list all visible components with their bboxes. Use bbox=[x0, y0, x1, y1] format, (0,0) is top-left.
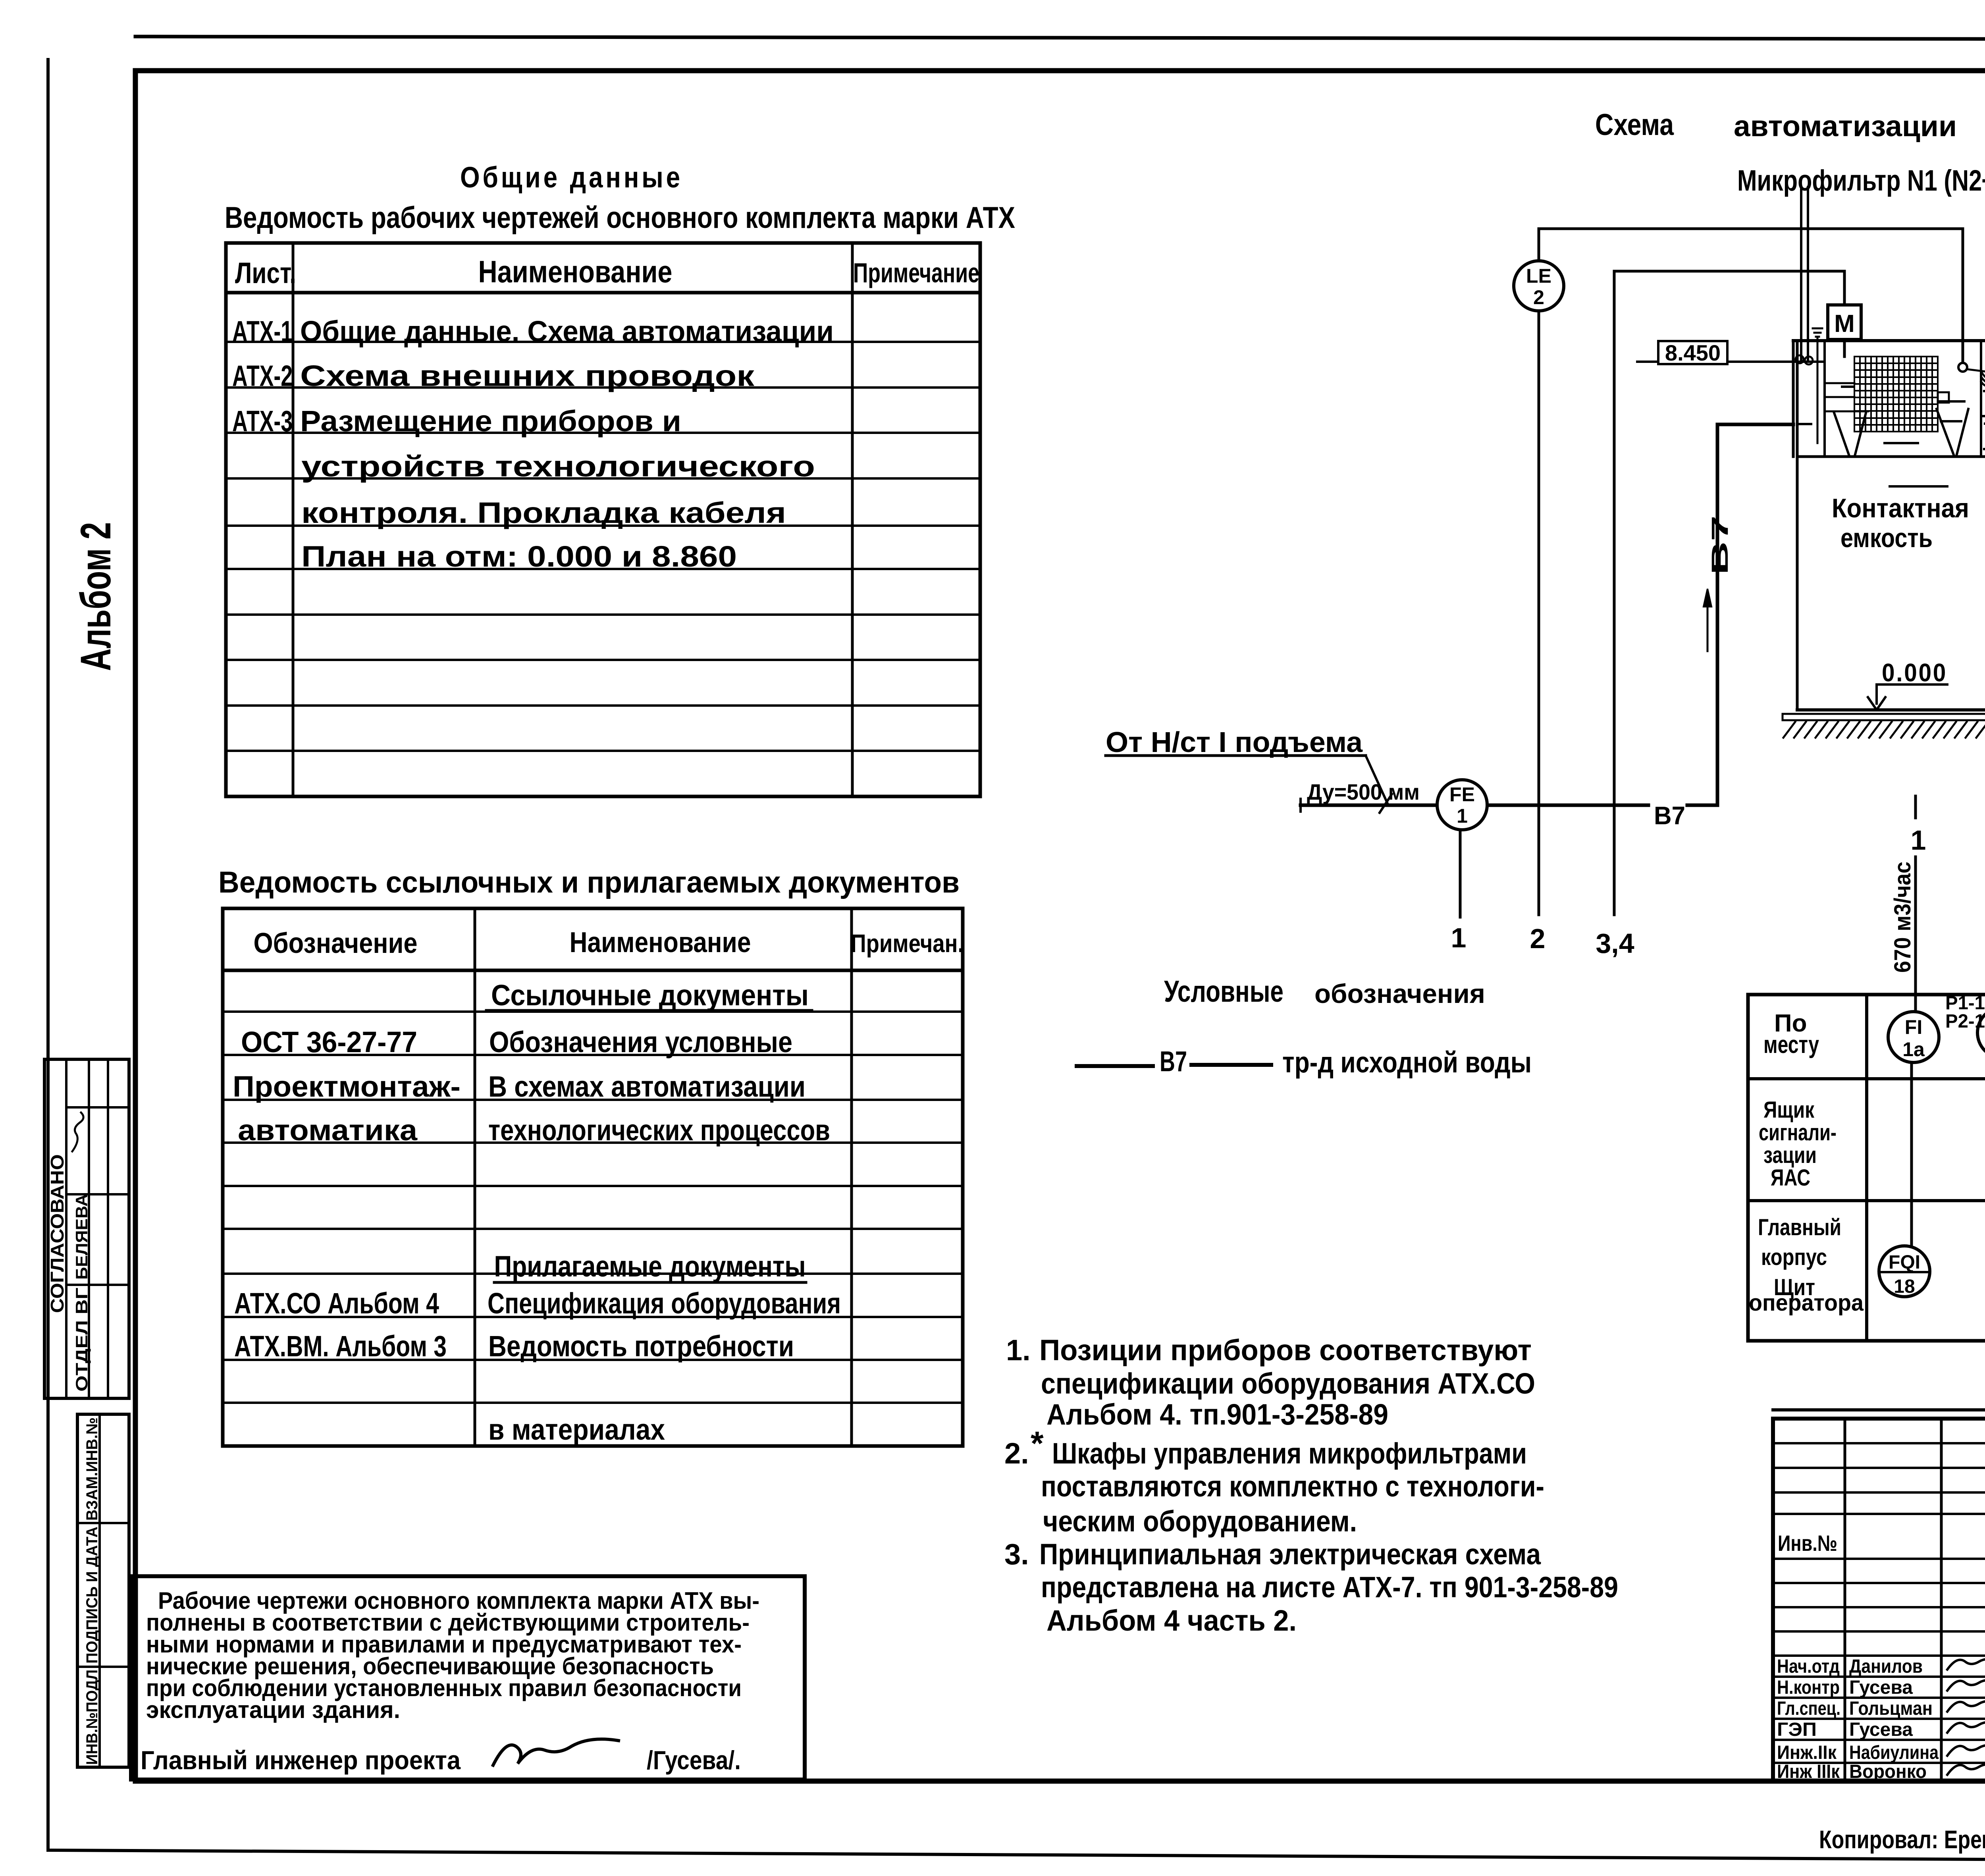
svg-text:FE: FE bbox=[1449, 783, 1475, 806]
svg-text:ВЗАМ.ИНВ.№: ВЗАМ.ИНВ.№ bbox=[83, 1417, 101, 1521]
svg-text:Главный инженер проекта: Главный инженер проекта bbox=[141, 1745, 461, 1775]
flow element FE1 circle bbox=[1437, 780, 1487, 830]
signal line FI to FQI bbox=[1910, 1062, 1913, 1246]
ground hatching bbox=[1783, 722, 1985, 738]
approval stamp block (Согласовано) bbox=[44, 1059, 129, 1398]
svg-text:Шкафы управления микрофильтрам: Шкафы управления микрофильтрами bbox=[1052, 1437, 1527, 1470]
svg-text:автоматизации: автоматизации bbox=[1734, 110, 1957, 143]
svg-text:Альбом 4 часть 2.: Альбом 4 часть 2. bbox=[1046, 1604, 1297, 1637]
svg-text:Главный: Главный bbox=[1758, 1215, 1841, 1240]
svg-text:поставляются комплектно с техн: поставляются комплектно с технологи- bbox=[1041, 1470, 1544, 1503]
svg-text:3.: 3. bbox=[1004, 1538, 1029, 1571]
svg-text:оператора: оператора bbox=[1749, 1290, 1864, 1316]
level gauge symbol bbox=[1813, 328, 1822, 330]
svg-text:ОСТ 36-27-77: ОСТ 36-27-77 bbox=[241, 1026, 417, 1059]
svg-text:Прилагаемые документы: Прилагаемые документы bbox=[494, 1250, 806, 1283]
svg-text:зации: зации bbox=[1763, 1142, 1817, 1168]
FE1 signal stem bbox=[1459, 830, 1462, 917]
svg-text:Примечан.: Примечан. bbox=[851, 929, 964, 958]
svg-text:3,4: 3,4 bbox=[1596, 928, 1634, 959]
signal line 1 stub bbox=[1914, 796, 1917, 818]
svg-text:Общие данные. Схема автоматиза: Общие данные. Схема автоматизации bbox=[300, 315, 834, 348]
svg-text:Позиции приборов соответствуют: Позиции приборов соответствуют bbox=[1039, 1334, 1532, 1367]
svg-text:Обозначения условные: Обозначения условные bbox=[489, 1026, 792, 1059]
right level probe circle bbox=[1958, 363, 1967, 372]
inlet trough shelves bbox=[1825, 382, 1854, 384]
svg-text:В схемах автоматизации: В схемах автоматизации bbox=[488, 1070, 806, 1103]
svg-text:Условные: Условные bbox=[1164, 975, 1284, 1008]
svg-text:/Гусева/.: /Гусева/. bbox=[647, 1745, 741, 1775]
svg-text:Размещение приборов и: Размещение приборов и bbox=[300, 405, 681, 438]
svg-text:1.: 1. bbox=[1006, 1334, 1031, 1367]
title block small rows bbox=[1773, 1442, 1985, 1444]
svg-text:Гусева: Гусева bbox=[1849, 1677, 1913, 1698]
left level probe circles bbox=[1796, 355, 1804, 363]
svg-text:корпус: корпус bbox=[1761, 1244, 1827, 1270]
svg-text:обозначения: обозначения bbox=[1314, 979, 1485, 1009]
svg-text:АТХ.СО Альбом 4: АТХ.СО Альбом 4 bbox=[234, 1287, 439, 1320]
svg-text:2: 2 bbox=[1533, 286, 1544, 308]
flow indicator FI 1a circle bbox=[1888, 1012, 1939, 1062]
svg-text:Копировал: Еремченко: Копировал: Еремченко bbox=[1819, 1825, 1985, 1854]
water level dashes in filter chamber bbox=[1799, 387, 1964, 486]
svg-text:1а: 1а bbox=[1902, 1038, 1925, 1060]
svg-text:месту: месту bbox=[1763, 1031, 1819, 1059]
level switch LCS 2 circle bbox=[1977, 1007, 1985, 1058]
svg-text:Ведомость потребности: Ведомость потребности bbox=[488, 1330, 794, 1363]
svg-text:Альбом 4. тп.901-3-258-89: Альбом 4. тп.901-3-258-89 bbox=[1046, 1398, 1388, 1431]
riser flow arrow up bbox=[1707, 592, 1709, 651]
svg-text:ЯАС: ЯАС bbox=[1771, 1165, 1810, 1191]
sheet outer trim line left bbox=[46, 60, 50, 1850]
svg-text:Нач.отд: Нач.отд bbox=[1777, 1656, 1840, 1677]
overflow weir arcs bbox=[1981, 371, 1985, 387]
overflow chamber water dashes bbox=[1983, 391, 1985, 449]
svg-text:Обозначение: Обозначение bbox=[254, 927, 418, 959]
svg-text:2: 2 bbox=[1530, 923, 1546, 954]
svg-text:Наименование: Наименование bbox=[478, 254, 673, 289]
water pipe B7 from pump station bbox=[1301, 804, 1437, 807]
svg-text:тр-д исходной воды: тр-д исходной воды bbox=[1282, 1046, 1532, 1079]
personnel rows bbox=[1773, 1654, 1985, 1657]
drum support struts bbox=[1834, 413, 1849, 456]
svg-text:670 м3/час: 670 м3/час bbox=[1890, 862, 1916, 973]
svg-text:БЕЛЯЕВА: БЕЛЯЕВА bbox=[72, 1194, 91, 1280]
svg-text:Наименование: Наименование bbox=[570, 927, 751, 958]
svg-text:сигнали-: сигнали- bbox=[1759, 1120, 1837, 1145]
filter tank inner divider right bbox=[1980, 342, 1982, 457]
motor control wire bbox=[1614, 271, 1844, 915]
svg-text:М: М bbox=[1834, 310, 1855, 337]
svg-text:LE: LE bbox=[1526, 265, 1551, 287]
filter tank top edge bbox=[1793, 339, 1985, 342]
motor shaft stub bbox=[1843, 339, 1846, 357]
svg-text:ИНВ.№ПОДЛ: ИНВ.№ПОДЛ bbox=[83, 1670, 101, 1765]
svg-text:Принципиальная электрическая с: Принципиальная электрическая схема bbox=[1039, 1538, 1541, 1571]
svg-text:*: * bbox=[1031, 1425, 1044, 1462]
filter tank left wall (double) bbox=[1792, 341, 1795, 457]
svg-text:ческим оборудованием.: ческим оборудованием. bbox=[1043, 1505, 1357, 1538]
svg-text:АТХ-1: АТХ-1 bbox=[232, 315, 293, 348]
pipe break slash bbox=[1380, 794, 1392, 813]
svg-text:Ведомость ссылочных и прилагае: Ведомость ссылочных и прилагаемых докуме… bbox=[218, 866, 960, 899]
level element LE2 circle bbox=[1514, 261, 1564, 311]
riser pipe B7 to tank bbox=[1717, 424, 1793, 805]
mesh side sensor box bbox=[1938, 392, 1949, 403]
svg-text:Инж IIIк: Инж IIIк bbox=[1777, 1761, 1840, 1782]
svg-text:Контактная: Контактная bbox=[1832, 493, 1969, 523]
title block left columns bbox=[1844, 1419, 1846, 1781]
inventory stamp block (Взам/Подпись/Инв) bbox=[77, 1414, 129, 1767]
svg-text:Альбом 2: Альбом 2 bbox=[71, 522, 119, 671]
svg-text:Схема внешних проводок: Схема внешних проводок bbox=[300, 359, 755, 392]
svg-text:Лист.: Лист. bbox=[235, 256, 296, 289]
svg-text:18: 18 bbox=[1894, 1276, 1915, 1297]
svg-text:Микрофильтр N1 (N2÷N4).: Микрофильтр N1 (N2÷N4). bbox=[1737, 164, 1985, 197]
svg-text:устройств технологического: устройств технологического bbox=[301, 450, 815, 483]
svg-text:Набиулина: Набиулина bbox=[1849, 1742, 1939, 1763]
chief engineer signature bbox=[493, 1739, 619, 1765]
svg-text:0.000: 0.000 bbox=[1882, 658, 1947, 687]
microfilter mesh drum bbox=[1854, 357, 1938, 432]
wire from LE2 to right level probe bbox=[1539, 229, 1963, 361]
svg-text:Ящик: Ящик bbox=[1763, 1097, 1815, 1123]
svg-text:В7: В7 bbox=[1160, 1046, 1187, 1078]
svg-text:Данилов: Данилов bbox=[1849, 1656, 1923, 1677]
svg-text:Инж.IIк: Инж.IIк bbox=[1777, 1742, 1837, 1763]
svg-text:Гл.спец.: Гл.спец. bbox=[1777, 1698, 1840, 1719]
svg-text:Ведомость рабочих чертежей осн: Ведомость рабочих чертежей основного ком… bbox=[225, 201, 1015, 235]
svg-text:ПОДПИСЬ И ДАТА: ПОДПИСЬ И ДАТА bbox=[83, 1527, 101, 1664]
svg-text:Ду=500 мм: Ду=500 мм bbox=[1307, 779, 1420, 804]
elevation box 8.450 bbox=[1658, 341, 1727, 364]
level line at 8.450 bbox=[1637, 361, 1658, 363]
table 2: referenced documents bbox=[223, 908, 963, 1446]
svg-text:FQI: FQI bbox=[1889, 1252, 1920, 1273]
svg-text:Ссылочные документы: Ссылочные документы bbox=[491, 979, 809, 1012]
title block top rule bbox=[1773, 1408, 1985, 1411]
svg-text:2.: 2. bbox=[1004, 1437, 1029, 1470]
flow totalizer FQI 18 circle bbox=[1879, 1246, 1930, 1297]
svg-text:Схема: Схема bbox=[1595, 108, 1674, 142]
svg-text:1: 1 bbox=[1457, 805, 1468, 827]
svg-text:1: 1 bbox=[1911, 825, 1926, 856]
statement box bbox=[131, 1576, 805, 1780]
svg-text:спецификации оборудования АТХ.: спецификации оборудования АТХ.СО bbox=[1041, 1367, 1535, 1400]
motor M box bbox=[1828, 305, 1861, 339]
svg-text:в материалах: в материалах bbox=[488, 1413, 665, 1446]
svg-text:АТХ.ВМ. Альбом 3: АТХ.ВМ. Альбом 3 bbox=[234, 1330, 447, 1363]
svg-text:ГЭП: ГЭП bbox=[1777, 1719, 1817, 1740]
sheet outer trim line top bbox=[135, 37, 1985, 40]
filter tank inner divider left bbox=[1823, 342, 1826, 457]
svg-text:Общие данные: Общие данные bbox=[460, 161, 683, 194]
svg-text:В7: В7 bbox=[1707, 515, 1733, 575]
svg-text:FI: FI bbox=[1905, 1016, 1922, 1038]
svg-text:представлена на листе АТХ-7. т: представлена на листе АТХ-7. тп 901-3-25… bbox=[1041, 1571, 1618, 1604]
svg-text:1: 1 bbox=[1451, 922, 1467, 953]
svg-text:Воронко: Воронко bbox=[1849, 1761, 1927, 1782]
svg-text:Спецификация оборудования: Спецификация оборудования bbox=[488, 1287, 841, 1320]
signal line 1 to FI bbox=[1914, 857, 1917, 1012]
drum drive shaft double line bbox=[1800, 187, 1802, 360]
tank bottom bbox=[1797, 708, 1985, 711]
LE2 signal wire down bbox=[1538, 311, 1540, 915]
lower tank top edge bbox=[1797, 455, 1985, 458]
svg-text:емкость: емкость bbox=[1840, 523, 1933, 553]
svg-text:Инв.№: Инв.№ bbox=[1778, 1531, 1837, 1556]
svg-text:Гусева: Гусева bbox=[1849, 1719, 1913, 1740]
legend pipe sample bbox=[1077, 1064, 1153, 1068]
svg-text:8.450: 8.450 bbox=[1665, 340, 1721, 365]
table 1: list of working drawings bbox=[226, 243, 980, 796]
approval signature squiggle bbox=[72, 1112, 83, 1151]
svg-text:Н.контр: Н.контр bbox=[1777, 1677, 1840, 1698]
foundation plate bbox=[1783, 714, 1985, 720]
svg-text:автоматика: автоматика bbox=[238, 1114, 418, 1147]
title block outline bbox=[1773, 1419, 1985, 1781]
svg-text:АТХ-3: АТХ-3 bbox=[232, 405, 293, 438]
svg-text:технологических процессов: технологических процессов bbox=[488, 1114, 830, 1147]
svg-text:Гольцман: Гольцман bbox=[1849, 1698, 1933, 1719]
svg-text:План на отм: 0.000 и 8.860: План на отм: 0.000 и 8.860 bbox=[301, 540, 737, 573]
svg-text:Проектмонтаж-: Проектмонтаж- bbox=[233, 1070, 461, 1103]
svg-text:АТХ-2: АТХ-2 bbox=[232, 359, 293, 392]
svg-text:От Н/ст I подъема: От Н/ст I подъема bbox=[1106, 727, 1363, 758]
svg-text:контроля. Прокладка кабеля: контроля. Прокладка кабеля bbox=[301, 496, 786, 529]
svg-text:В7: В7 bbox=[1654, 801, 1685, 830]
svg-text:ОТДЕЛ ВГ: ОТДЕЛ ВГ bbox=[72, 1288, 91, 1392]
sheet outer trim line bottom bbox=[48, 1850, 1985, 1862]
svg-text:СОГЛАСОВАНО: СОГЛАСОВАНО bbox=[47, 1154, 67, 1313]
instrument location table bbox=[1748, 995, 1985, 1341]
svg-text:эксплуатации здания.: эксплуатации здания. bbox=[146, 1697, 400, 1723]
svg-text:Примечание: Примечание bbox=[853, 257, 979, 288]
